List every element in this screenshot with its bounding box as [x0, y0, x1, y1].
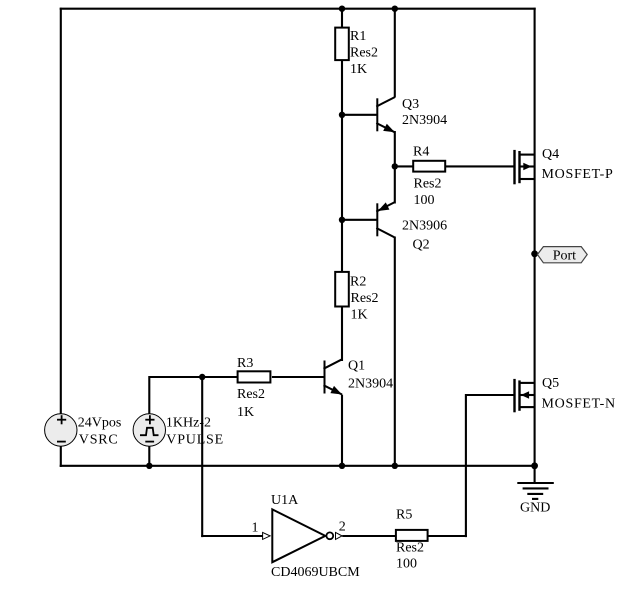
svg-text:Port: Port — [553, 249, 576, 264]
svg-text:Res2: Res2 — [350, 46, 378, 61]
svg-text:MOSFET-P: MOSFET-P — [542, 167, 614, 182]
svg-text:Res2: Res2 — [351, 291, 379, 306]
svg-text:MOSFET-N: MOSFET-N — [542, 397, 616, 412]
svg-text:2N3906: 2N3906 — [402, 219, 447, 234]
svg-text:VPULSE: VPULSE — [166, 433, 224, 448]
svg-text:Q1: Q1 — [348, 359, 365, 374]
svg-text:R5: R5 — [396, 508, 412, 523]
svg-text:Res2: Res2 — [396, 541, 424, 556]
svg-text:Q2: Q2 — [413, 238, 430, 253]
svg-text:R1: R1 — [350, 29, 366, 44]
svg-text:2: 2 — [339, 520, 346, 535]
svg-text:Q5: Q5 — [542, 376, 559, 391]
svg-text:Res2: Res2 — [237, 387, 265, 402]
svg-text:R3: R3 — [237, 356, 253, 371]
svg-text:R2: R2 — [350, 275, 366, 290]
svg-text:24Vpos: 24Vpos — [78, 416, 122, 431]
svg-text:Q4: Q4 — [542, 147, 559, 162]
svg-text:100: 100 — [396, 557, 417, 572]
svg-text:1KHz-2: 1KHz-2 — [166, 416, 211, 431]
svg-text:U1A: U1A — [271, 493, 299, 508]
svg-text:1K: 1K — [350, 62, 367, 77]
svg-text:100: 100 — [414, 193, 435, 208]
svg-text:Q3: Q3 — [402, 97, 419, 112]
svg-text:VSRC: VSRC — [79, 433, 119, 448]
svg-text:1K: 1K — [351, 308, 368, 323]
svg-text:1K: 1K — [237, 405, 254, 420]
svg-text:2N3904: 2N3904 — [348, 377, 393, 392]
svg-text:Res2: Res2 — [414, 177, 442, 192]
svg-text:1: 1 — [252, 521, 259, 536]
svg-text:GND: GND — [520, 501, 550, 516]
svg-text:R4: R4 — [413, 145, 429, 160]
svg-text:2N3904: 2N3904 — [402, 113, 447, 128]
svg-text:CD4069UBCM: CD4069UBCM — [271, 565, 360, 580]
